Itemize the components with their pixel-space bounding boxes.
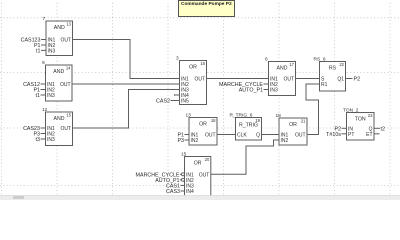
svg-text:t1: t1 bbox=[36, 93, 40, 99]
svg-text:R_TRIG_6: R_TRIG_6 bbox=[230, 112, 253, 118]
svg-text:OR: OR bbox=[199, 122, 207, 128]
svg-text:IN3: IN3 bbox=[270, 88, 278, 94]
svg-text:IN3: IN3 bbox=[47, 137, 55, 143]
svg-text:RS_6: RS_6 bbox=[314, 56, 326, 62]
svg-text:t1: t1 bbox=[36, 48, 40, 54]
svg-text:AND: AND bbox=[54, 25, 65, 31]
svg-text:20: 20 bbox=[205, 157, 210, 162]
svg-text:21: 21 bbox=[301, 119, 306, 124]
svg-text:IN3: IN3 bbox=[48, 48, 56, 54]
svg-text:Q: Q bbox=[256, 133, 260, 139]
svg-text:T#10s: T#10s bbox=[326, 132, 341, 138]
svg-text:TON_2: TON_2 bbox=[343, 107, 359, 113]
svg-text:19: 19 bbox=[255, 118, 260, 123]
svg-text:CLK: CLK bbox=[237, 133, 247, 139]
svg-text:OUT: OUT bbox=[199, 172, 210, 178]
svg-text:18: 18 bbox=[276, 113, 282, 119]
svg-text:t3: t3 bbox=[36, 137, 40, 143]
svg-text:IN4: IN4 bbox=[186, 189, 194, 195]
svg-text:7: 7 bbox=[43, 16, 46, 22]
svg-text:13: 13 bbox=[66, 22, 71, 27]
svg-text:AND: AND bbox=[277, 66, 288, 72]
svg-text:RS: RS bbox=[329, 66, 337, 72]
svg-text:18: 18 bbox=[211, 118, 216, 123]
svg-text:CAS3: CAS3 bbox=[166, 189, 180, 195]
svg-text:6: 6 bbox=[265, 56, 268, 62]
svg-text:IN5: IN5 bbox=[181, 99, 189, 105]
svg-text:AUTO_P1: AUTO_P1 bbox=[239, 88, 263, 94]
svg-text:OUT: OUT bbox=[205, 133, 216, 139]
svg-text:OUT: OUT bbox=[60, 38, 71, 44]
svg-text:P2: P2 bbox=[354, 77, 361, 83]
svg-text:IN2: IN2 bbox=[281, 138, 289, 144]
svg-text:Commande Pompe P2: Commande Pompe P2 bbox=[181, 1, 232, 7]
svg-text:OR: OR bbox=[189, 65, 197, 71]
svg-text:OR: OR bbox=[194, 161, 202, 167]
svg-text:OR: OR bbox=[289, 122, 297, 128]
svg-text:OUT: OUT bbox=[295, 133, 306, 139]
svg-text:OUT: OUT bbox=[194, 77, 205, 83]
svg-text:12: 12 bbox=[42, 107, 48, 113]
svg-text:OUT: OUT bbox=[283, 77, 294, 83]
svg-text:16: 16 bbox=[200, 61, 205, 66]
svg-text:OUT: OUT bbox=[60, 82, 71, 88]
svg-text:R1: R1 bbox=[321, 82, 328, 88]
svg-text:9: 9 bbox=[42, 60, 45, 66]
svg-text:AND: AND bbox=[53, 69, 64, 75]
svg-text:23: 23 bbox=[368, 113, 373, 118]
svg-text:ET: ET bbox=[366, 132, 372, 138]
svg-text:13: 13 bbox=[186, 112, 192, 118]
svg-text:3: 3 bbox=[176, 55, 179, 61]
svg-text:15: 15 bbox=[181, 151, 187, 157]
svg-text:IN3: IN3 bbox=[47, 93, 55, 99]
svg-text:14: 14 bbox=[66, 66, 71, 71]
svg-text:R_TRIG: R_TRIG bbox=[239, 123, 258, 129]
svg-text:TON: TON bbox=[355, 117, 366, 123]
svg-text:t2: t2 bbox=[381, 126, 385, 132]
svg-text:22: 22 bbox=[339, 62, 344, 67]
svg-text:AND: AND bbox=[54, 116, 65, 122]
svg-text:P3: P3 bbox=[177, 138, 184, 144]
svg-text:Q1: Q1 bbox=[337, 77, 344, 83]
svg-text:PT: PT bbox=[348, 132, 354, 138]
svg-text:OUT: OUT bbox=[60, 126, 71, 132]
svg-text:CAS2: CAS2 bbox=[156, 99, 170, 105]
svg-text:IN2: IN2 bbox=[191, 138, 199, 144]
svg-text:17: 17 bbox=[289, 62, 294, 67]
svg-text:15: 15 bbox=[66, 113, 71, 118]
